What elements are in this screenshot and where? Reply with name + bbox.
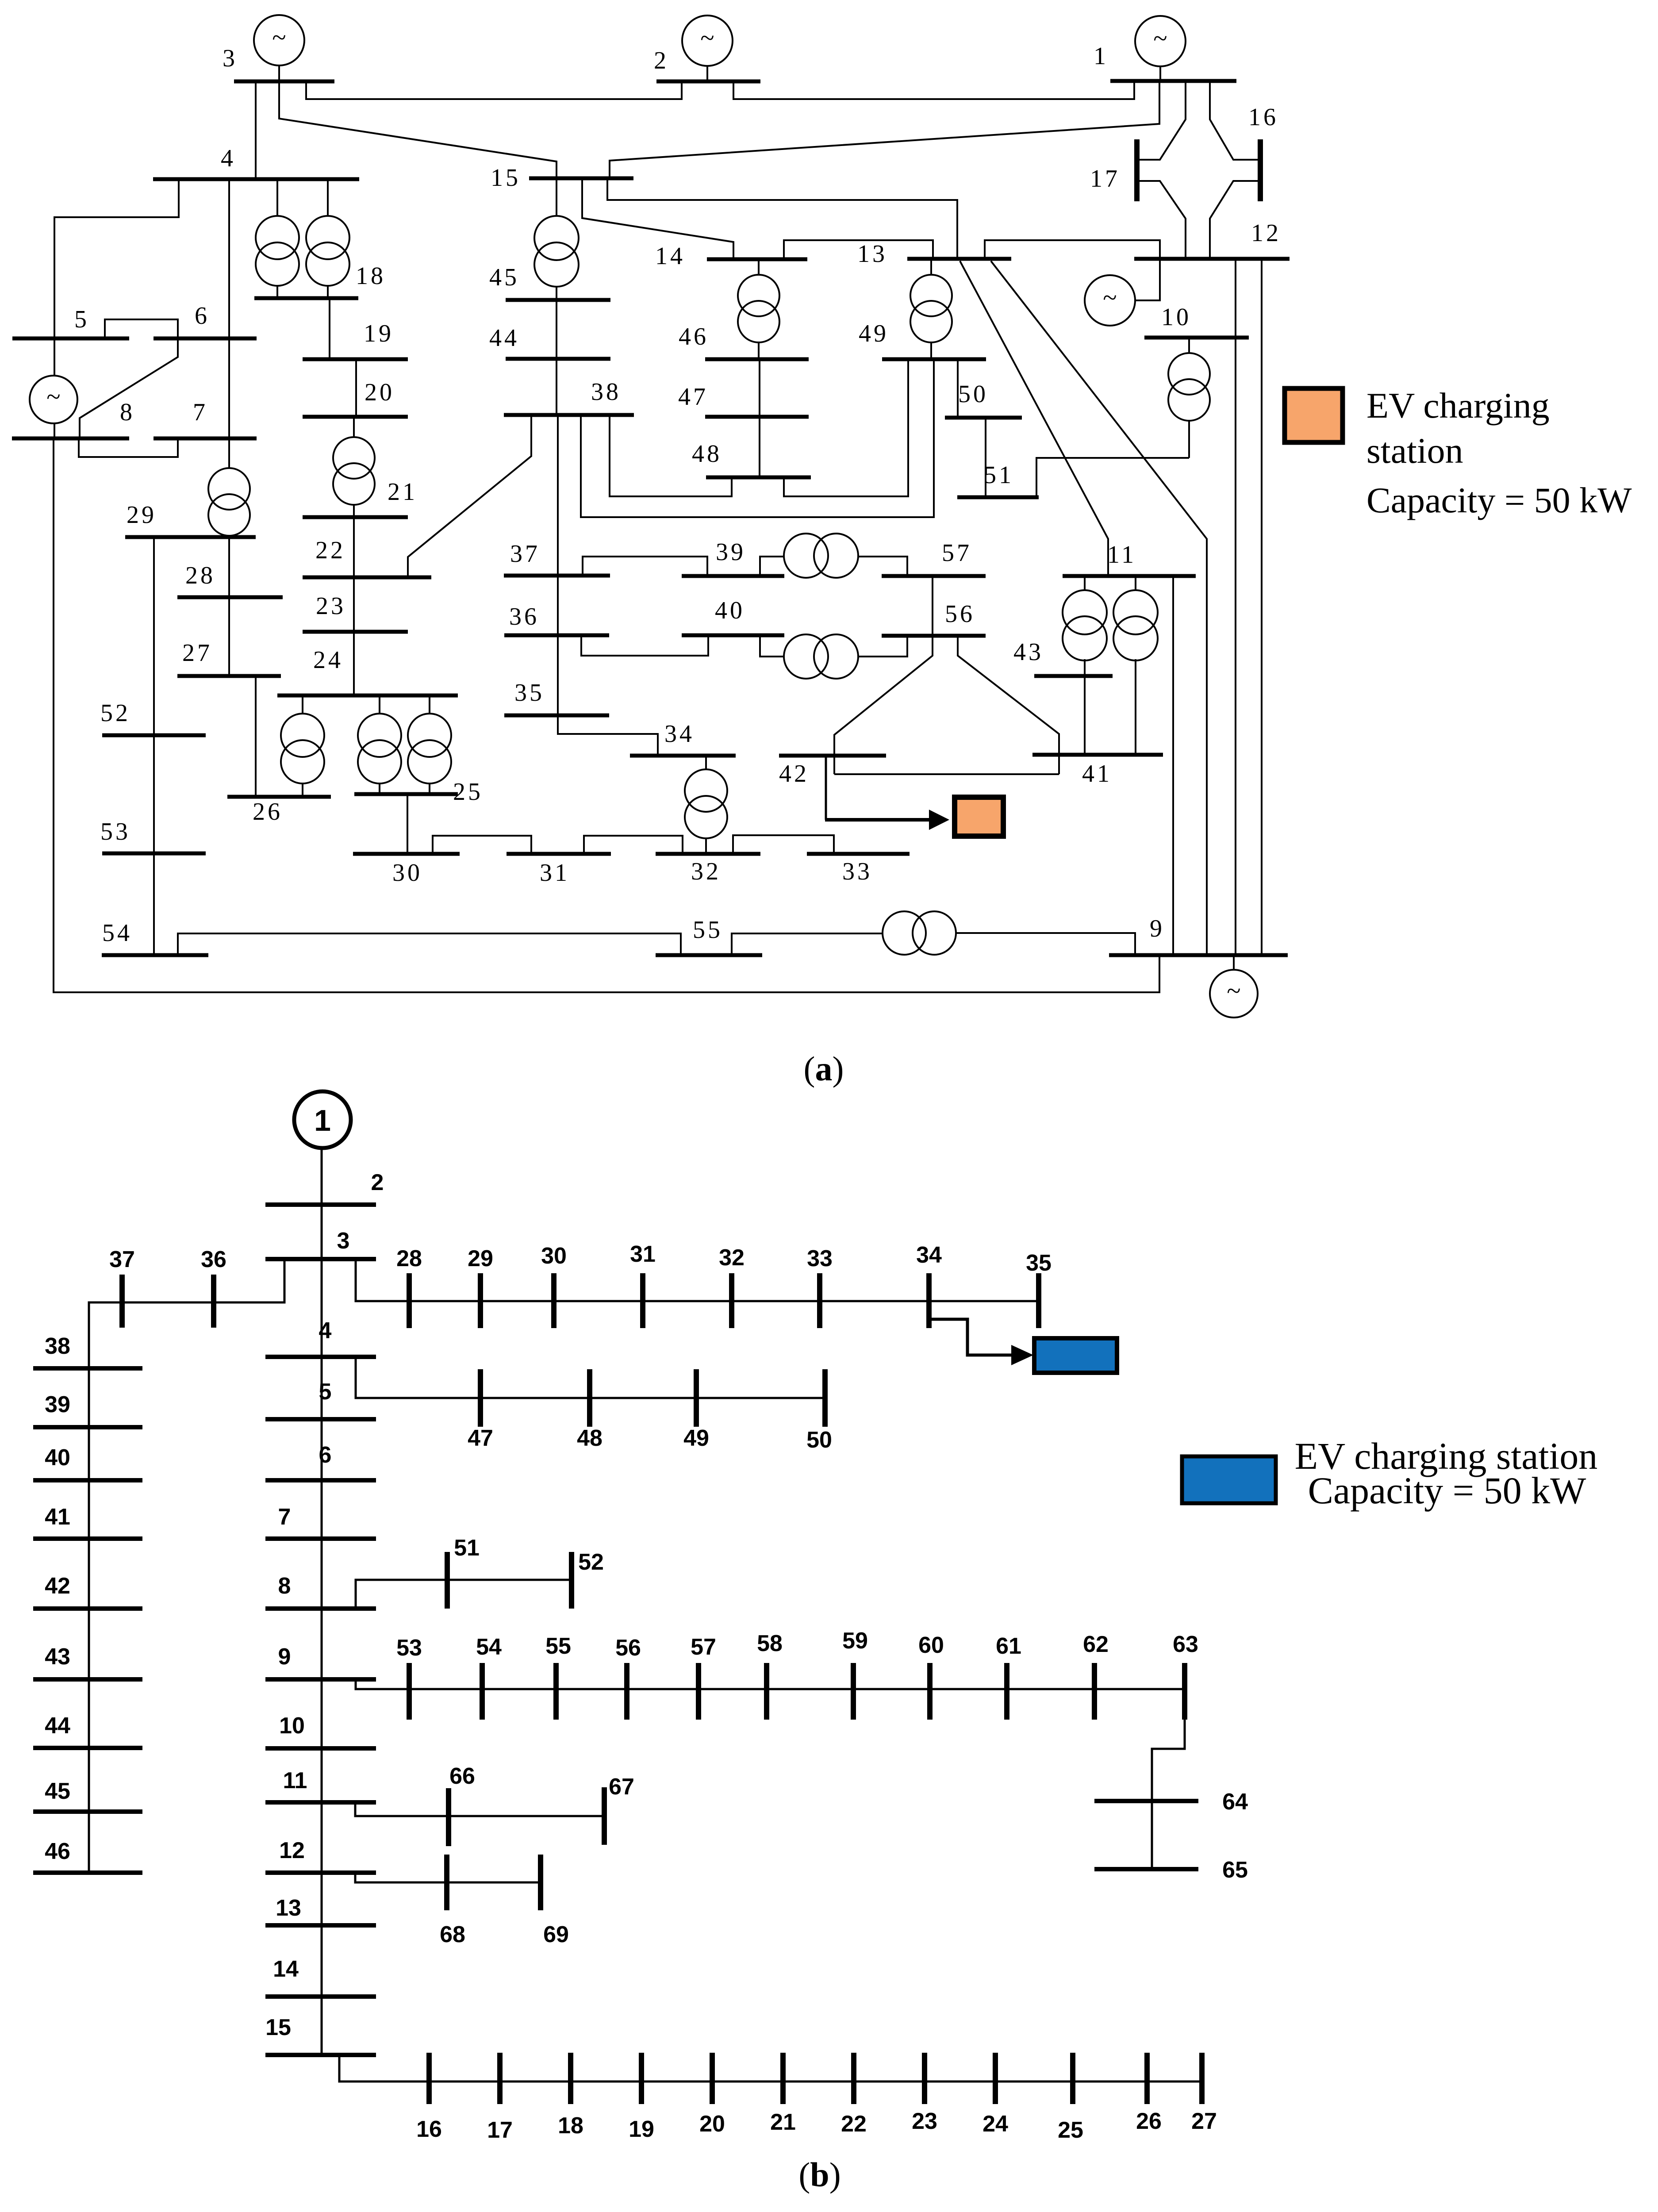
svg-text:21: 21: [770, 2109, 796, 2135]
bus 66 tick (b): [446, 1788, 451, 1846]
bus 24 tick (b): [993, 2053, 998, 2104]
bus 34 tick (b): [926, 1273, 932, 1328]
wire line 36-40 jog: [581, 635, 708, 656]
svg-text:53: 53: [100, 818, 130, 845]
wire line 57-56: [932, 576, 933, 636]
bus 25 bar: [354, 792, 458, 796]
generator at bus 3: [254, 15, 304, 65]
wire bus5 to gen8: [54, 338, 55, 376]
svg-text:(b): (b): [798, 2155, 841, 2194]
svg-text:68: 68: [440, 1922, 465, 1947]
wire line 23-24: [353, 632, 355, 695]
bus 9 bar: [1109, 953, 1288, 957]
svg-text:18: 18: [558, 2113, 583, 2139]
wire gen3 to bus 3: [278, 65, 280, 81]
svg-text:42: 42: [45, 1573, 70, 1599]
bus 36 bar: [504, 634, 609, 637]
svg-text:51: 51: [454, 1535, 480, 1561]
bus 24 bar: [277, 694, 458, 698]
svg-text:7: 7: [278, 1504, 291, 1530]
wire main feeder 1-15 (b): [321, 1149, 323, 2055]
wire line 13-9: [991, 261, 1207, 955]
svg-text:69: 69: [543, 1922, 569, 1947]
wire line 38-49 jog: [581, 359, 934, 517]
wire line 55 to xfmr 55-9: [732, 933, 883, 955]
svg-text:23: 23: [316, 592, 346, 620]
bus 51 bar: [957, 495, 1039, 499]
svg-text:10: 10: [279, 1713, 305, 1739]
svg-text:15: 15: [265, 2015, 291, 2040]
svg-text:29: 29: [468, 1246, 493, 1271]
svg-text:~: ~: [1227, 976, 1240, 1005]
arrowhead to EV charging station (a): [929, 810, 949, 830]
svg-text:30: 30: [392, 859, 422, 887]
bus 2 bar: [656, 80, 760, 84]
bus 61 tick (b): [1004, 1663, 1009, 1720]
bus 17 bar (vertical): [1134, 139, 1140, 201]
wire gen2 to bus 2: [706, 66, 708, 81]
svg-text:57: 57: [942, 539, 972, 567]
bus 10 bar (b): [265, 1746, 376, 1751]
bus 46 bar (b): [33, 1870, 142, 1875]
bus 21 tick (b): [780, 2053, 786, 2104]
bus 19 tick (b): [639, 2053, 644, 2104]
wire line 51 to xfmr 10-51: [1036, 458, 1189, 497]
wire line 1-16: [1210, 81, 1259, 160]
svg-text:~: ~: [1103, 283, 1117, 312]
svg-text:24: 24: [313, 646, 343, 674]
wire line 1-17: [1138, 81, 1186, 160]
bus 35 bar: [504, 714, 609, 718]
svg-text:6: 6: [195, 302, 210, 330]
wire line 29-28: [228, 537, 230, 597]
bus 38 bar (b): [33, 1366, 142, 1371]
bus 52 tick (b): [569, 1552, 574, 1609]
svg-text:46: 46: [679, 323, 709, 350]
transformer 34-32: [685, 769, 727, 838]
svg-text:33: 33: [807, 1246, 833, 1271]
bus 22 tick (b): [851, 2053, 856, 2104]
wire line 28-27: [228, 597, 230, 676]
svg-text:~: ~: [1153, 24, 1167, 53]
bus 50 tick (b): [822, 1369, 828, 1427]
svg-text:22: 22: [841, 2111, 867, 2137]
svg-text:60: 60: [918, 1632, 944, 1658]
bus 55 bar: [656, 953, 762, 957]
bus 55 tick (b): [553, 1663, 559, 1720]
transformer 14-46: [738, 275, 779, 342]
svg-text:8: 8: [278, 1573, 291, 1599]
svg-text:44: 44: [45, 1713, 70, 1739]
bus 33 bar: [807, 852, 910, 856]
bus 17 tick (b): [497, 2053, 503, 2104]
bus 63 tick (b): [1182, 1663, 1187, 1720]
wire line 2-1: [733, 81, 1134, 99]
svg-text:4: 4: [319, 1318, 332, 1344]
wire line 13-11: [960, 261, 1108, 576]
svg-text:52: 52: [578, 1549, 604, 1575]
bus 4 bar (b): [265, 1355, 376, 1359]
transformer 40-56: [784, 634, 858, 679]
svg-text:12: 12: [279, 1838, 305, 1863]
svg-text:11: 11: [1107, 541, 1136, 568]
wire line 15-14: [582, 178, 733, 259]
svg-text:50: 50: [806, 1427, 832, 1453]
wire line 6-8: [80, 338, 178, 438]
bus 40 bar (b): [33, 1478, 142, 1482]
bus 7 bar (b): [265, 1536, 376, 1541]
wire line 32-33 jog: [733, 835, 834, 854]
bus 22 bar: [303, 576, 431, 580]
bus 28 bar: [177, 595, 283, 599]
svg-text:27: 27: [1191, 2108, 1217, 2134]
bus 68 tick (b): [444, 1855, 449, 1910]
bus 18 bar: [254, 296, 358, 300]
transformer 55-9: [883, 911, 956, 955]
svg-text:17: 17: [1090, 165, 1120, 192]
wire line 18-19: [329, 298, 330, 359]
bus 20 tick (b): [710, 2053, 715, 2104]
bus 30 tick (b): [551, 1273, 557, 1328]
wire line 16-12: [1210, 181, 1259, 259]
svg-text:20: 20: [365, 379, 395, 406]
bus 9 bar (b): [265, 1677, 376, 1682]
generator at bus 1: [1135, 16, 1186, 66]
bus 48 bar: [706, 476, 811, 480]
wire bus8 to branch 51-52 (b): [356, 1580, 572, 1609]
wire bus34 to EV charging station (b): [929, 1319, 1014, 1355]
svg-text:20: 20: [699, 2111, 725, 2137]
svg-text:66: 66: [449, 1763, 475, 1789]
wire line 56-42 tent leg: [834, 636, 933, 774]
bus 65 bar (b): [1094, 1867, 1198, 1871]
wire bus3-bus4: [255, 81, 257, 179]
svg-text:27: 27: [182, 639, 212, 667]
svg-text:55: 55: [693, 916, 723, 944]
wire bus3 to left feeder (b): [89, 1259, 284, 1873]
bus 47 tick (b): [478, 1369, 483, 1427]
svg-text:35: 35: [1026, 1250, 1052, 1276]
svg-text:21: 21: [388, 478, 418, 506]
bus 28 tick (b): [407, 1273, 412, 1328]
generator at bus 2: [682, 15, 733, 66]
wire line 56-41 tent leg: [958, 636, 1059, 774]
svg-text:4: 4: [221, 145, 236, 172]
generator node 1 (b): [294, 1091, 351, 1148]
svg-text:43: 43: [45, 1644, 70, 1670]
svg-text:32: 32: [691, 858, 721, 885]
svg-text:46: 46: [45, 1839, 70, 1864]
wire line 4-5: [54, 179, 179, 338]
bus 29 bar: [125, 535, 256, 539]
bus 50 bar: [945, 416, 1022, 420]
svg-text:67: 67: [609, 1774, 634, 1800]
bus 62 tick (b): [1092, 1663, 1097, 1720]
svg-text:54: 54: [102, 919, 132, 947]
wire line 13-12 jog: [985, 240, 1160, 259]
wire xfmr 39-57 to bus 57: [857, 557, 907, 576]
svg-text:57: 57: [691, 1634, 716, 1660]
svg-text:35: 35: [514, 679, 545, 707]
svg-text:2: 2: [654, 47, 669, 74]
wire line 25-30: [407, 794, 408, 854]
svg-text:43: 43: [1013, 638, 1044, 666]
EV charging station square (a): [955, 797, 1003, 836]
svg-text:41: 41: [45, 1504, 70, 1530]
bus 26 bar: [227, 795, 331, 799]
bus 45 bar (b): [33, 1809, 142, 1814]
bus 33 tick (b): [817, 1273, 822, 1328]
wire bus39 to xfmr 39-57: [760, 557, 785, 576]
svg-text:16: 16: [1248, 104, 1278, 131]
svg-text:5: 5: [74, 306, 89, 333]
wire line 38-22: [408, 415, 531, 577]
svg-text:64: 64: [1222, 1789, 1248, 1815]
bus 18 tick (b): [568, 2053, 573, 2104]
svg-text:48: 48: [577, 1425, 603, 1451]
wire xfmr 34-32 leads: [705, 756, 707, 854]
generator at bus 9: [1210, 970, 1258, 1018]
svg-text:39: 39: [45, 1392, 70, 1417]
svg-text:~: ~: [272, 23, 286, 52]
transformer 7-29: [208, 468, 250, 536]
svg-text:18: 18: [356, 262, 386, 290]
bus 40 bar: [682, 634, 784, 637]
bus 39 bar: [682, 574, 784, 578]
bus 10 bar: [1144, 336, 1249, 340]
svg-text:31: 31: [540, 859, 570, 887]
wire xfmr 24-25a leads: [379, 695, 380, 794]
svg-text:13: 13: [857, 240, 887, 268]
bus 64 bar (b): [1094, 1799, 1198, 1803]
svg-text:23: 23: [912, 2108, 937, 2134]
bus 29 tick (b): [478, 1273, 483, 1328]
bus 5 bar: [12, 337, 129, 341]
svg-text:49: 49: [683, 1425, 709, 1451]
bus 5 bar (b): [265, 1417, 376, 1421]
svg-text:56: 56: [615, 1635, 641, 1661]
svg-text:15: 15: [491, 164, 521, 192]
bus 1 bar: [1110, 79, 1236, 83]
bus 26 tick (b): [1144, 2053, 1150, 2104]
svg-text:58: 58: [757, 1631, 783, 1656]
svg-text:1: 1: [1094, 42, 1109, 70]
svg-text:25: 25: [1058, 2117, 1083, 2143]
wire line 38-48 jog: [610, 415, 732, 496]
bus 37 bar: [504, 574, 610, 578]
svg-text:19: 19: [629, 2116, 654, 2142]
transformer 13-49: [910, 275, 952, 342]
bus 49 bar: [882, 357, 986, 361]
bus 67 tick (b): [602, 1787, 607, 1845]
svg-text:29: 29: [127, 501, 157, 529]
svg-text:13: 13: [276, 1895, 301, 1921]
svg-text:2: 2: [371, 1170, 384, 1195]
wire line 12-9: [1261, 259, 1263, 955]
wire tent skirt 42-41: [834, 773, 1059, 775]
svg-text:station: station: [1366, 430, 1463, 471]
wire xfmr 4-18a leads: [276, 179, 278, 298]
wire line 31-32 jog: [584, 836, 683, 854]
transformer 4-18 a: [256, 216, 299, 286]
bus 39 bar (b): [33, 1425, 142, 1429]
svg-text:3: 3: [223, 45, 238, 72]
svg-text:33: 33: [842, 858, 872, 885]
bus 31 tick (b): [640, 1273, 645, 1328]
svg-text:32: 32: [719, 1245, 745, 1271]
svg-text:51: 51: [984, 461, 1014, 489]
wire bus11 to branch 66-67 (b): [355, 1802, 604, 1816]
svg-text:9: 9: [1150, 915, 1165, 942]
legend box EV charging station (b): [1182, 1456, 1276, 1503]
bus 4 bar: [153, 177, 359, 181]
wire line 45-44: [556, 300, 557, 359]
svg-text:25: 25: [453, 778, 483, 806]
transformer 24-25 b: [408, 714, 451, 783]
bus 44 bar (b): [33, 1746, 142, 1750]
bus 31 bar: [507, 852, 611, 856]
bus 45 bar: [506, 298, 610, 302]
legend square EV charging station (a): [1285, 388, 1343, 442]
svg-text:50: 50: [958, 380, 988, 408]
bus 37 tick (b): [119, 1275, 125, 1328]
svg-text:34: 34: [664, 720, 695, 748]
bus 15 bar: [529, 177, 633, 180]
bus 46 bar: [705, 357, 809, 361]
svg-text:28: 28: [396, 1246, 422, 1271]
bus 69 tick (b): [538, 1855, 543, 1910]
svg-text:40: 40: [715, 597, 745, 624]
bus 32 tick (b): [729, 1273, 734, 1328]
bus 12 bar: [1134, 257, 1290, 261]
svg-text:45: 45: [489, 264, 519, 291]
wire line 35-34 jog: [558, 715, 658, 756]
svg-text:55: 55: [545, 1633, 571, 1659]
wire xfmr 7-29 leads: [228, 438, 230, 538]
svg-text:49: 49: [859, 320, 889, 347]
wire gen9 lead: [1233, 955, 1235, 970]
transformer 10-51: [1168, 353, 1210, 421]
bus 35 tick (b): [1036, 1273, 1041, 1328]
svg-text:EV charging: EV charging: [1366, 385, 1550, 426]
bus 3 bar (b): [265, 1257, 376, 1261]
wire bus42 to EV charging station: [825, 756, 827, 820]
svg-text:38: 38: [45, 1333, 70, 1359]
wire line 50-51: [985, 418, 986, 497]
bus 32 bar: [656, 852, 760, 856]
wire line 44-38: [556, 359, 557, 415]
bus 57 bar: [882, 574, 986, 578]
wire line 15-1: [610, 81, 1159, 178]
wire line 8-7 jog: [79, 438, 178, 457]
wire line 47-48: [759, 417, 760, 477]
bus 19 bar: [303, 357, 408, 361]
svg-text:(a): (a): [804, 1049, 844, 1088]
svg-text:56: 56: [945, 600, 975, 628]
svg-text:47: 47: [468, 1425, 493, 1451]
transformer 24-25 a: [358, 714, 401, 783]
svg-text:36: 36: [509, 603, 539, 630]
bus 34 bar: [630, 754, 736, 758]
svg-text:45: 45: [45, 1778, 70, 1804]
wire gen1 to bus 1: [1159, 66, 1161, 81]
svg-text:28: 28: [185, 562, 215, 589]
bus 25 tick (b): [1070, 2053, 1075, 2104]
svg-text:53: 53: [396, 1635, 422, 1661]
generator at bus 8: [30, 376, 77, 423]
bus 6 bar: [154, 337, 257, 341]
svg-text:61: 61: [996, 1633, 1021, 1659]
transformer 11-41: [1113, 590, 1158, 661]
svg-text:30: 30: [541, 1243, 567, 1269]
transformer 11-43: [1063, 590, 1107, 661]
svg-text:24: 24: [983, 2111, 1008, 2137]
bus 53 tick (b): [407, 1663, 412, 1720]
svg-text:44: 44: [489, 324, 519, 352]
wire bus9 to feeder 53-63 (b): [356, 1678, 1185, 1689]
svg-text:39: 39: [716, 538, 746, 566]
svg-text:38: 38: [591, 378, 621, 406]
svg-text:54: 54: [476, 1634, 502, 1660]
bus 3 bar: [234, 80, 334, 84]
bus 38 bar: [504, 413, 634, 417]
bus 54 tick (b): [480, 1663, 485, 1720]
svg-text:16: 16: [416, 2116, 442, 2142]
bus 60 tick (b): [927, 1663, 933, 1720]
bus 12 bar (b): [265, 1870, 376, 1875]
bus 15 bar (b): [265, 2053, 376, 2057]
svg-text:17: 17: [487, 2117, 513, 2143]
wire xfmr 15-45 leads: [556, 178, 557, 300]
wire xfmr 4-18b leads: [327, 179, 329, 298]
bus 7 bar: [154, 437, 257, 441]
wire line 29-52-53-54: [153, 537, 155, 955]
wire bus63 to 64-65 (b): [1152, 1720, 1185, 1869]
wire bus3 to feeder 28-35 (b): [356, 1259, 1039, 1301]
wire bus40 to xfmr 40-56: [760, 635, 785, 657]
wire line 54-55 jog: [178, 933, 681, 955]
transformer 24-26: [281, 714, 324, 783]
bus 59 tick (b): [851, 1663, 856, 1720]
svg-text:~: ~: [700, 23, 714, 52]
wire xfmr 24-26 leads: [302, 695, 303, 797]
wire xfmr 55-9 to bus 9: [956, 933, 1135, 955]
wire line 3-2: [306, 81, 682, 99]
bus 49 tick (b): [694, 1369, 699, 1427]
svg-text:5: 5: [319, 1379, 332, 1405]
wire bus4 to feeder 47-50 (b): [356, 1357, 825, 1398]
wire line 38-37-36-35: [557, 415, 559, 715]
bus 16 bar (vertical): [1258, 139, 1263, 201]
wire line 17-12: [1138, 181, 1186, 259]
bus 14 bar: [707, 257, 807, 261]
bus 52 bar: [102, 733, 206, 737]
wire xfmr 11-43 leads: [1084, 576, 1086, 676]
svg-text:Capacity = 50 kW: Capacity = 50 kW: [1308, 1469, 1586, 1512]
svg-text:10: 10: [1161, 303, 1191, 331]
svg-text:26: 26: [253, 798, 283, 826]
svg-text:9: 9: [278, 1644, 291, 1670]
bus 8 bar (b): [265, 1606, 376, 1611]
wire gen12 lead: [1136, 259, 1160, 300]
bus 21 bar: [303, 515, 408, 519]
svg-text:31: 31: [630, 1241, 656, 1267]
svg-text:22: 22: [315, 537, 345, 564]
bus 27 tick (b): [1199, 2053, 1205, 2104]
bus 53 bar: [102, 852, 206, 856]
svg-text:62: 62: [1083, 1632, 1109, 1657]
wire xfmr 20-21 leads: [353, 417, 355, 517]
